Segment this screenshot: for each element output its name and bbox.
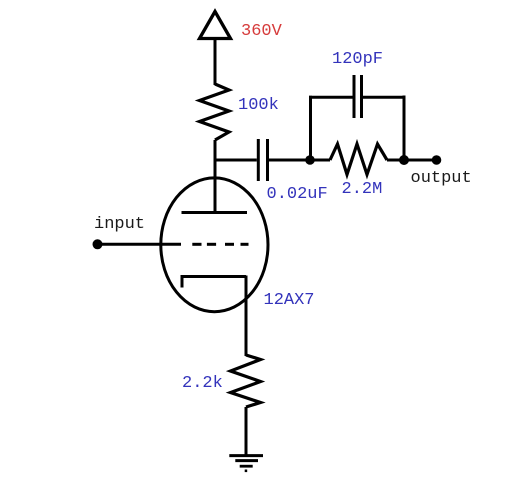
wire cathode to R3 [245, 276, 248, 357]
resistor R1 [200, 84, 230, 140]
output terminal dot [432, 155, 442, 165]
wire B+ to R1 [214, 38, 217, 85]
input terminal dot [93, 239, 103, 249]
svg-text:120pF: 120pF [332, 50, 383, 69]
capacitor C2 right plate [360, 75, 363, 118]
node B junction dot [399, 155, 409, 165]
ground bar 1 [229, 454, 263, 457]
svg-text:2.2k: 2.2k [182, 374, 223, 393]
B+ power supply symbol [200, 12, 231, 39]
wire node B to output terminal [404, 159, 436, 162]
anode plate [182, 211, 248, 214]
ground bar 3 [240, 465, 253, 468]
svg-text:0.02uF: 0.02uF [267, 185, 328, 204]
wire C2 to right riser [363, 96, 406, 99]
ground bar 4 [245, 469, 248, 472]
wire R3 to ground [245, 407, 248, 455]
wire riser to C2 [309, 96, 353, 99]
wire anode lead [214, 160, 217, 213]
svg-text:input: input [94, 215, 145, 234]
wire plate node to C1 [214, 159, 257, 162]
resistor R3 [231, 355, 261, 407]
wire R2 to node B [387, 159, 404, 162]
wire input to grid [98, 243, 182, 246]
wire right riser down to node B [403, 96, 406, 161]
cathode [182, 277, 246, 288]
capacitor C1 left plate [257, 139, 260, 181]
grid dashes [192, 243, 201, 246]
svg-text:100k: 100k [238, 96, 279, 115]
wire C1 to node A [269, 159, 310, 162]
wire R1 bottom to plate node [214, 140, 217, 162]
wire node A to R2 [310, 159, 330, 162]
capacitor C2 left plate [353, 75, 356, 118]
resistor R2 [330, 144, 387, 175]
svg-text:2.2M: 2.2M [342, 180, 383, 199]
ground bar 2 [235, 459, 258, 462]
node A junction dot [305, 155, 315, 165]
wire node A riser up [309, 96, 312, 160]
tube V1 envelope [161, 178, 268, 312]
capacitor C1 right plate [266, 139, 269, 181]
svg-text:12AX7: 12AX7 [264, 291, 315, 310]
svg-text:output: output [411, 169, 472, 188]
svg-text:360V: 360V [241, 22, 283, 41]
